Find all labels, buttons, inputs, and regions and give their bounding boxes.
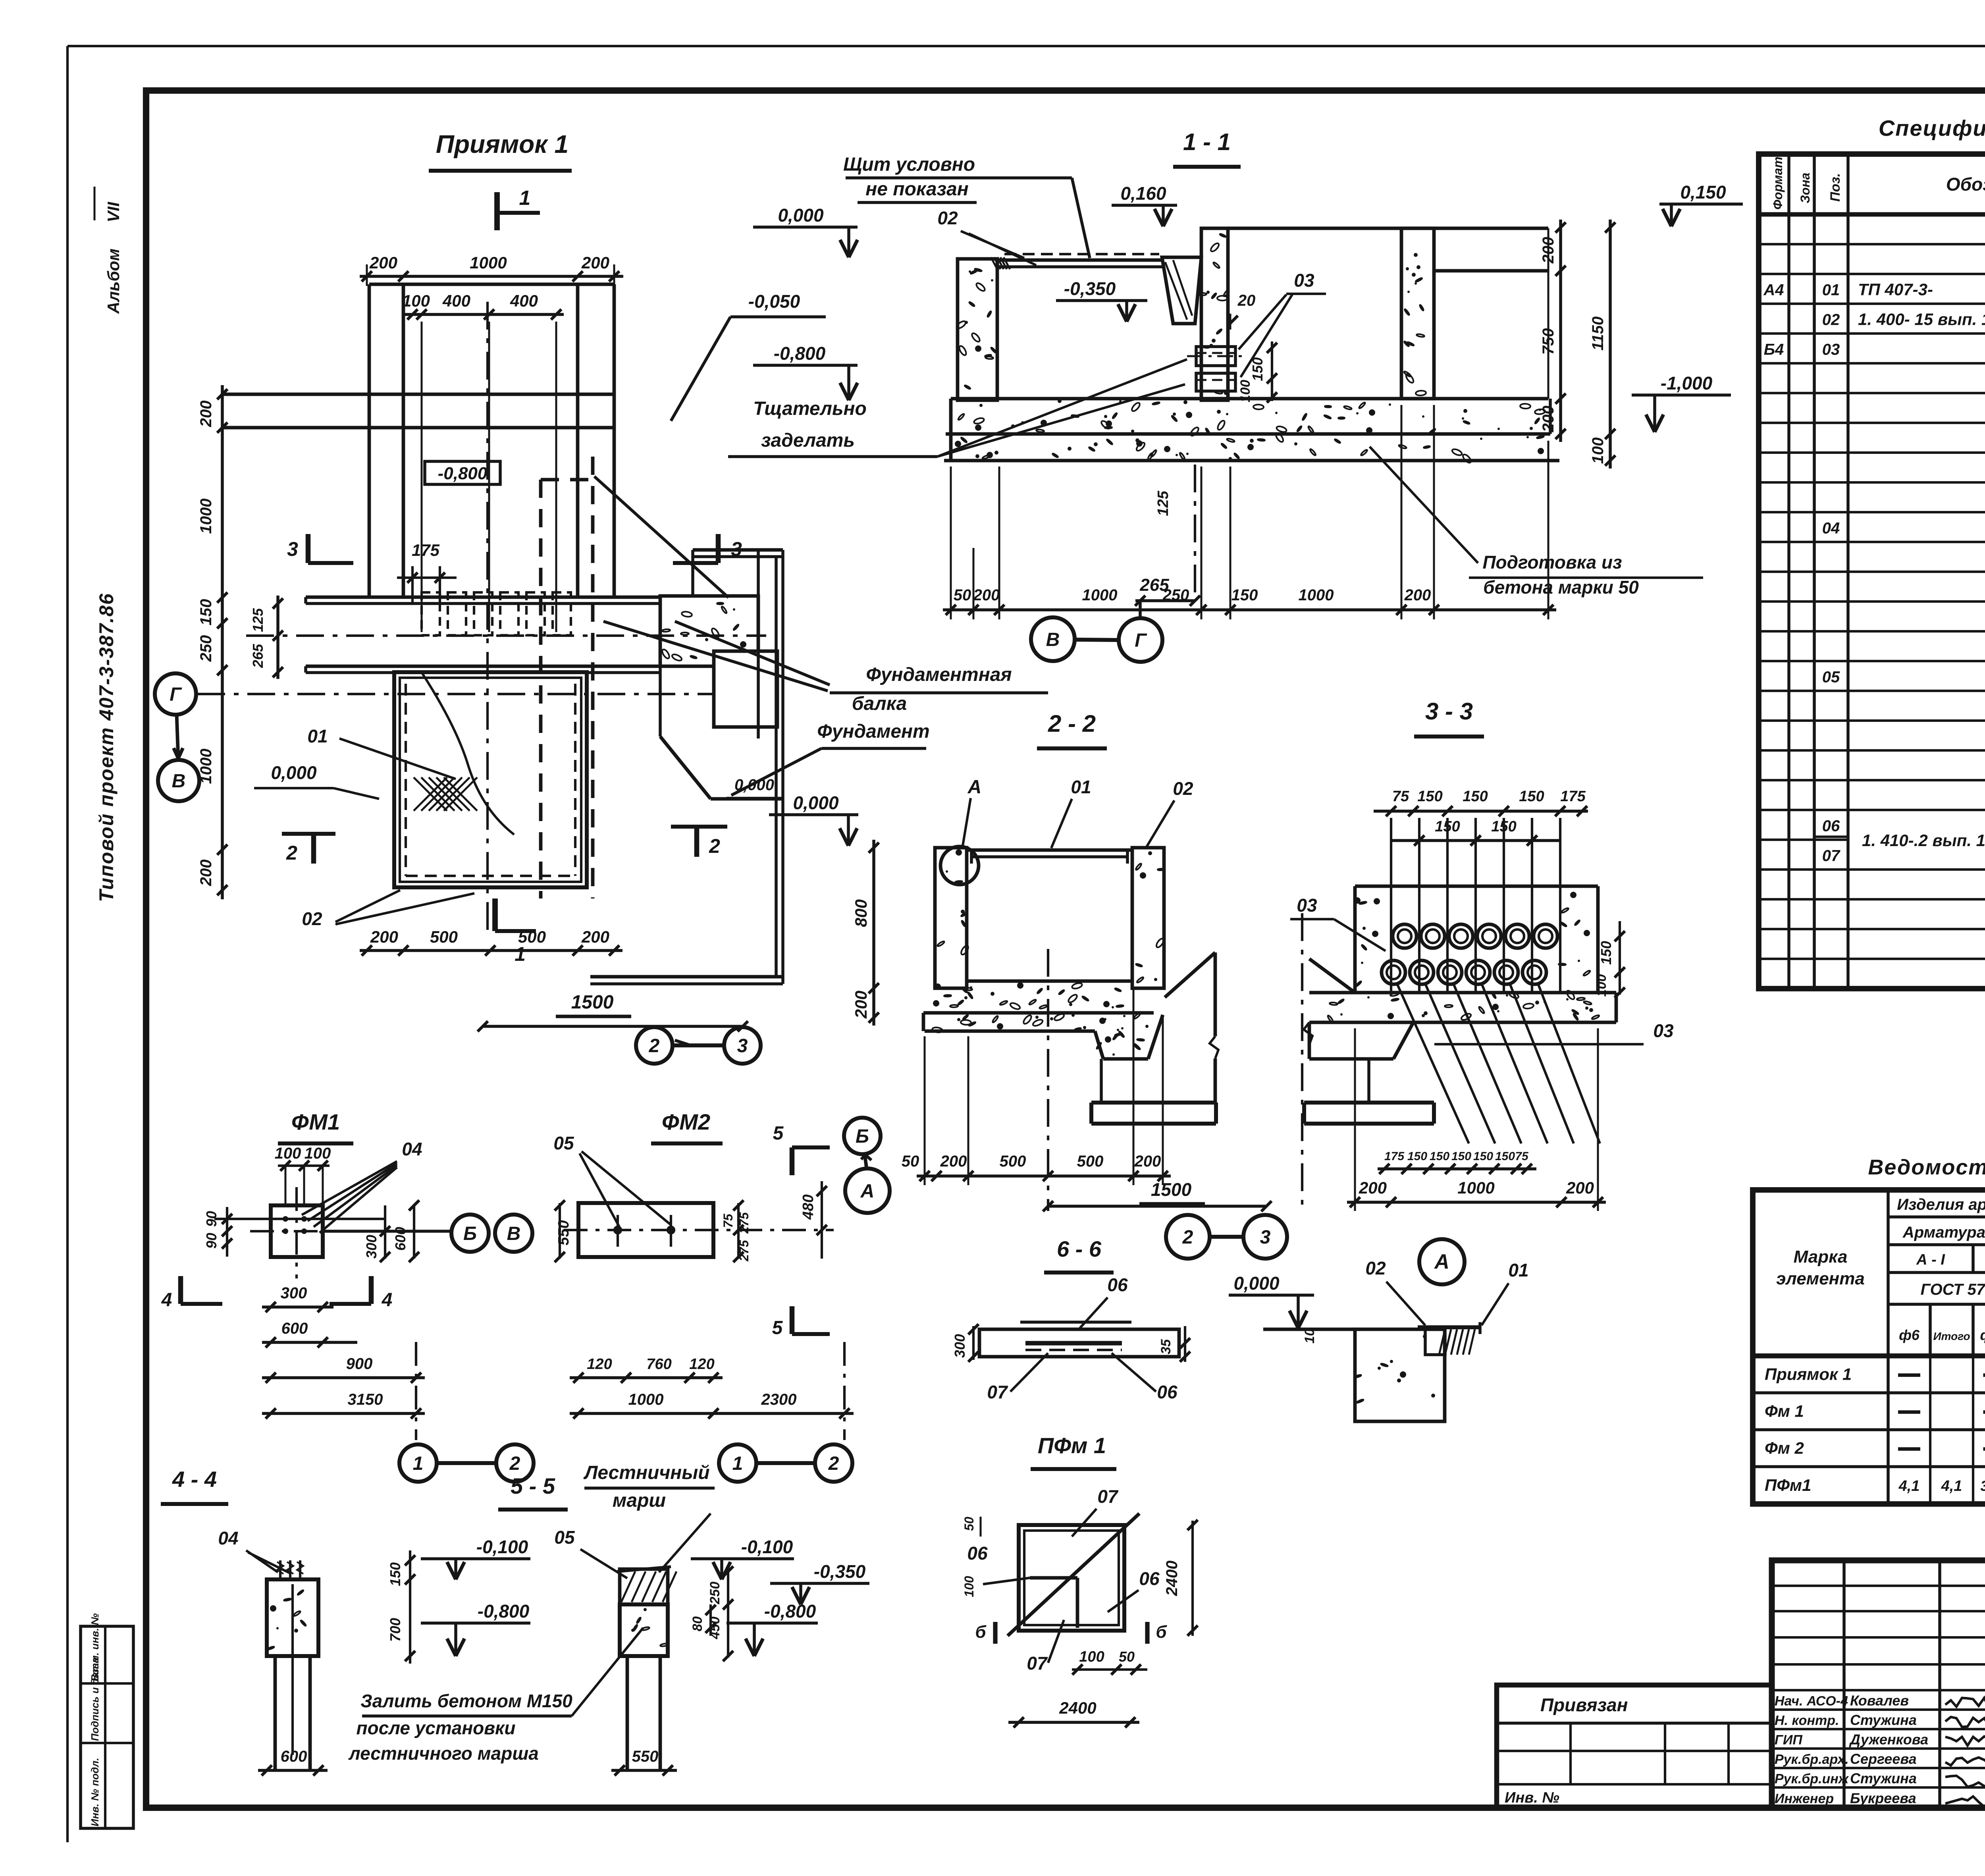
svg-text:4 - 4: 4 - 4 (172, 1467, 217, 1492)
svg-text:125: 125 (1155, 490, 1172, 516)
svg-text:80: 80 (690, 1616, 705, 1631)
svg-text:06: 06 (1822, 817, 1840, 835)
svg-text:150: 150 (1430, 1150, 1449, 1163)
svg-text:Обозначение: Обозначение (1946, 174, 1985, 195)
svg-text:100: 100 (275, 1145, 301, 1162)
svg-text:03: 03 (1294, 270, 1314, 291)
plan upper room walls (369, 283, 614, 286)
svg-text:75: 75 (1515, 1150, 1529, 1163)
svg-text:05: 05 (553, 1133, 574, 1153)
section 5-5 shaft below (626, 1656, 629, 1770)
svg-text:100: 100 (402, 291, 430, 310)
svg-text:1 - 1: 1 - 1 (1183, 129, 1231, 155)
svg-text:200: 200 (973, 586, 1000, 604)
svg-text:1: 1 (519, 187, 531, 210)
title block signature grid (1842, 1560, 1846, 1808)
plan level label -0,800 (boxed) (425, 461, 500, 484)
specification table grid (1759, 154, 1985, 989)
svg-text:ПФм1: ПФм1 (1765, 1476, 1811, 1494)
section 3-3 body (1355, 885, 1598, 888)
svg-text:1: 1 (515, 943, 526, 965)
svg-text:760: 760 (646, 1356, 671, 1373)
svg-text:150: 150 (1417, 788, 1442, 805)
svg-text:Фм 2: Фм 2 (1765, 1439, 1804, 1458)
svg-text:03: 03 (1653, 1020, 1674, 1041)
svg-text:150: 150 (387, 1562, 403, 1586)
svg-text:-0,050: -0,050 (748, 291, 800, 312)
outer thin margin border (67, 45, 1985, 47)
svg-text:0,000: 0,000 (778, 205, 824, 226)
section 2-2 detail circle А (940, 846, 979, 885)
svg-text:1000: 1000 (470, 253, 507, 272)
plan anchor bolt extension lines (421, 322, 423, 632)
section 4-4 dims 150 700 (409, 1550, 411, 1664)
svg-text:550: 550 (632, 1748, 659, 1765)
svg-text:Б4: Б4 (1764, 341, 1784, 359)
plan right foundation notch (714, 651, 777, 727)
svg-text:200: 200 (940, 1153, 967, 1170)
svg-text:200: 200 (197, 401, 215, 428)
svg-text:400: 400 (510, 291, 538, 310)
svg-text:75: 75 (721, 1213, 735, 1228)
svg-text:-0,800: -0,800 (774, 343, 826, 364)
section 2-2 ground break diagonal (1165, 952, 1215, 997)
svg-text:250: 250 (197, 635, 215, 662)
svg-text:500: 500 (430, 927, 458, 946)
svg-text:4,1: 4,1 (1941, 1478, 1962, 1494)
svg-text:90: 90 (203, 1211, 220, 1227)
svg-text:1500: 1500 (1151, 1179, 1192, 1200)
svg-text:5 - 5: 5 - 5 (511, 1473, 555, 1498)
svg-text:50: 50 (1119, 1648, 1135, 1665)
section 2-2 axis circles 2-3 (1166, 1215, 1210, 1259)
svg-text:175: 175 (1560, 788, 1586, 805)
svg-text:2400: 2400 (1163, 1561, 1181, 1596)
svg-text:Рук.бр.арх.: Рук.бр.арх. (1775, 1752, 1849, 1767)
plan section mark 2 (left) (311, 834, 316, 864)
svg-text:-0,800: -0,800 (764, 1601, 816, 1621)
svg-text:б: б (975, 1622, 987, 1642)
svg-text:2: 2 (509, 1453, 520, 1474)
ФМ1 section marks 4-4 (178, 1276, 183, 1304)
svg-text:1000: 1000 (628, 1391, 664, 1408)
plan left dimension chain (221, 385, 224, 899)
svg-text:Лестничный: Лестничный (583, 1462, 709, 1483)
svg-text:120: 120 (689, 1356, 714, 1373)
svg-text:1000: 1000 (1299, 586, 1334, 604)
svg-text:275: 275 (737, 1212, 751, 1234)
plan right foundation lower corner (659, 666, 662, 737)
svg-text:Зона: Зона (1798, 173, 1812, 203)
svg-text:100: 100 (1594, 974, 1609, 997)
svg-text:550: 550 (555, 1220, 572, 1245)
svg-text:02: 02 (1173, 778, 1193, 799)
svg-text:Дуженкова: Дуженкова (1849, 1731, 1928, 1748)
section 2-2 bottom dims (917, 1174, 1171, 1178)
svg-text:200: 200 (369, 253, 397, 272)
svg-text:-0,100: -0,100 (741, 1537, 793, 1557)
svg-text:50: 50 (902, 1153, 919, 1170)
svg-text:Залить бетоном М150: Залить бетоном М150 (360, 1691, 572, 1711)
section 1-1 right surface and ledge (1228, 227, 1548, 230)
svg-text:04: 04 (402, 1139, 422, 1159)
svg-text:4,1: 4,1 (1898, 1478, 1920, 1494)
section 3-3 bottom dim rows (1378, 1167, 1536, 1170)
title block frame (1772, 1560, 1985, 1808)
ФМ1 column plan (271, 1205, 323, 1257)
svg-text:150: 150 (1451, 1150, 1471, 1163)
svg-text:А: А (1434, 1250, 1449, 1273)
section 1-1 shield plate (997, 258, 1162, 262)
svg-text:Г: Г (1135, 630, 1147, 651)
svg-text:07: 07 (987, 1382, 1008, 1402)
svg-text:200: 200 (852, 991, 870, 1019)
svg-text:балка: балка (852, 693, 907, 714)
svg-text:150: 150 (1519, 788, 1544, 805)
svg-text:Подпись и дата: Подпись и дата (89, 1657, 101, 1741)
section 4-4 column (267, 1579, 318, 1656)
svg-text:Фундамент: Фундамент (817, 721, 929, 742)
section 3-3 vertical grid lines (1390, 818, 1392, 993)
svg-text:06: 06 (967, 1543, 988, 1564)
plan right foundation concrete band (660, 596, 758, 666)
svg-text:ГОСТ 5781-82: ГОСТ 5781-82 (1921, 1281, 1985, 1298)
ФМ2 axis circles 1 2 (719, 1444, 756, 1482)
plan section mark 3 (right) (716, 534, 721, 563)
section 3-3 top dim rows (1374, 810, 1588, 813)
section 2-2 foundation beam below (1091, 1101, 1216, 1105)
section 5-5 stair march element (hatched) (620, 1569, 668, 1604)
svg-text:35: 35 (1158, 1339, 1174, 1354)
section 1-1 axis circles В-Г (1031, 617, 1075, 661)
svg-text:05: 05 (1822, 669, 1840, 686)
section 1-1 right wall (1401, 228, 1434, 399)
svg-text:3150: 3150 (348, 1391, 383, 1408)
svg-text:Инженер: Инженер (1775, 1791, 1834, 1807)
svg-text:100: 100 (1589, 438, 1607, 464)
svg-text:В: В (172, 771, 186, 792)
plan fundament beam dashed squares (422, 592, 440, 635)
svg-text:200: 200 (1540, 237, 1557, 264)
svg-text:20: 20 (1237, 292, 1256, 309)
svg-text:750: 750 (1540, 328, 1557, 355)
svg-text:б: б (1156, 1622, 1167, 1642)
svg-text:3: 3 (737, 1035, 748, 1057)
svg-text:300: 300 (952, 1334, 968, 1358)
svg-text:50: 50 (954, 586, 971, 604)
svg-text:ф6: ф6 (1899, 1327, 1920, 1343)
section 1-1 left wall (958, 259, 997, 400)
svg-text:-0,800: -0,800 (438, 464, 488, 483)
title block left box Привязан (1497, 1685, 1772, 1808)
svg-text:-0,100: -0,100 (476, 1537, 528, 1557)
svg-text:2 - 2: 2 - 2 (1048, 710, 1096, 737)
section 3-3 right dims 150-100 (1619, 921, 1621, 995)
svg-text:ф10: ф10 (1980, 1327, 1985, 1343)
svg-text:1000: 1000 (1457, 1178, 1494, 1197)
svg-text:10: 10 (1302, 1328, 1317, 1344)
svg-text:2: 2 (828, 1453, 839, 1474)
svg-text:ГИП: ГИП (1775, 1733, 1803, 1748)
svg-text:Фм 1: Фм 1 (1765, 1402, 1804, 1421)
svg-text:лестничного марша: лестничного марша (348, 1743, 539, 1764)
axis circles Б-А between ФМ2 and section 2-2 (844, 1118, 881, 1154)
svg-text:Марка: Марка (1794, 1247, 1848, 1267)
svg-text:05: 05 (554, 1527, 575, 1548)
svg-text:01: 01 (1071, 777, 1091, 797)
svg-text:480: 480 (800, 1194, 817, 1220)
svg-text:600: 600 (281, 1320, 308, 1337)
svg-text:150: 150 (1463, 788, 1488, 805)
plan inner dimension chain 125-265 (276, 596, 279, 679)
svg-text:04: 04 (218, 1528, 238, 1548)
ФМ1 bottom dims (262, 1305, 333, 1309)
section 1-1 right dim chain 200-750-200 (1559, 220, 1562, 442)
svg-text:265: 265 (1139, 575, 1169, 595)
svg-text:03: 03 (1822, 341, 1840, 359)
svg-text:2: 2 (649, 1035, 660, 1057)
svg-text:02: 02 (937, 208, 958, 228)
plan trench (fundament beam channel) (306, 596, 660, 599)
svg-text:-0,350: -0,350 (1064, 278, 1116, 299)
svg-text:03: 03 (1297, 895, 1317, 916)
svg-text:3: 3 (287, 538, 298, 560)
svg-text:06: 06 (1157, 1382, 1178, 1402)
svg-text:А - I: А - I (1916, 1251, 1945, 1268)
svg-text:0,000: 0,000 (1233, 1273, 1280, 1294)
svg-text:4: 4 (382, 1290, 393, 1311)
svg-text:Б: Б (856, 1126, 869, 1147)
svg-text:заделать: заделать (761, 430, 855, 451)
svg-text:VII: VII (104, 201, 123, 222)
svg-text:300: 300 (363, 1235, 380, 1259)
svg-text:200: 200 (1134, 1153, 1161, 1170)
plan dashed hidden foundation rectangle (539, 480, 543, 898)
svg-text:150: 150 (1231, 586, 1258, 604)
svg-text:0,000: 0,000 (271, 762, 317, 783)
svg-text:500: 500 (518, 927, 546, 946)
plan top dimension 200-1000-200 (360, 275, 623, 278)
section 2-2 walls (935, 848, 967, 988)
svg-text:500: 500 (1077, 1153, 1104, 1170)
svg-text:Сергеева: Сергеева (1850, 1751, 1917, 1767)
svg-text:1. 410-.2 вып. 1: 1. 410-.2 вып. 1 (1862, 831, 1985, 850)
steel table grid (1753, 1190, 1985, 1504)
svg-text:1: 1 (732, 1453, 743, 1474)
svg-text:150: 150 (1598, 941, 1614, 965)
svg-text:Привязан: Привязан (1540, 1695, 1628, 1715)
svg-text:Стужина: Стужина (1850, 1712, 1917, 1728)
svg-text:200: 200 (197, 860, 215, 887)
plan leader lines to фундаментная балка (594, 476, 728, 598)
plan section mark 3 (left) (306, 534, 311, 563)
svg-text:0,150: 0,150 (1680, 182, 1726, 202)
svg-text:2400: 2400 (1059, 1699, 1096, 1717)
svg-text:100: 100 (1079, 1648, 1104, 1665)
ПФм1 diagonal bar 07 (1008, 1514, 1139, 1636)
section 3-3 footing below-left (1393, 1022, 1413, 1059)
ПФм1 slab plan (1019, 1525, 1124, 1631)
svg-text:ФМ1: ФМ1 (291, 1109, 340, 1134)
plan right foundation bottom edge (590, 975, 783, 979)
svg-text:Приямок 1: Приямок 1 (436, 130, 569, 158)
ПФм1 dim 2400 bottom (1008, 1721, 1139, 1724)
plan pit hatch patch (414, 777, 447, 811)
svg-text:1000: 1000 (197, 499, 215, 534)
svg-text:150: 150 (1473, 1150, 1493, 1163)
svg-text:37,7: 37,7 (1980, 1478, 1985, 1494)
svg-text:ТП 407-3-: ТП 407-3- (1858, 280, 1933, 299)
svg-text:Букреева: Букреева (1850, 1790, 1916, 1807)
svg-text:50: 50 (962, 1517, 976, 1531)
svg-text:Приямок 1: Приямок 1 (1765, 1365, 1852, 1384)
section 1-1 right dim chain 1150-100 (1609, 220, 1612, 469)
ФМ1 right dims 300 600 (384, 1205, 386, 1259)
svg-text:02: 02 (302, 908, 322, 929)
svg-text:Стужина: Стужина (1850, 1770, 1917, 1787)
svg-text:01: 01 (1508, 1260, 1528, 1280)
section 1-1 shield end upstand (1162, 257, 1201, 324)
plan section mark 2 (right) (694, 827, 700, 857)
svg-text:07: 07 (1822, 847, 1840, 865)
svg-text:500: 500 (1000, 1153, 1026, 1170)
svg-text:элемента: элемента (1776, 1269, 1865, 1288)
svg-text:200: 200 (1359, 1178, 1387, 1197)
svg-text:Типовой проект 407-3-387.86: Типовой проект 407-3-387.86 (95, 593, 118, 902)
section 3-3 pipe circles row 2 (1382, 960, 1405, 984)
svg-text:200: 200 (1404, 586, 1431, 604)
title block signatures (squiggles) (1945, 1698, 1985, 1710)
svg-text:после установки: после установки (357, 1718, 516, 1738)
svg-text:В: В (507, 1223, 521, 1244)
section 2-2 cover plate 01 (967, 848, 1132, 852)
ФМ2 right dims 75 275 275 (737, 1203, 740, 1259)
svg-text:04: 04 (1822, 520, 1840, 537)
plan dimension 100-400-400 (405, 313, 564, 316)
svg-text:01: 01 (307, 726, 328, 746)
section 3-3 diagonal pipe lines (1397, 985, 1469, 1143)
detail А floor line (1263, 1328, 1355, 1331)
section 6-6 plate (979, 1329, 1179, 1357)
svg-text:150: 150 (197, 599, 215, 626)
ФМ1 axis circles 1 2 (399, 1444, 437, 1482)
detail А circle label (1419, 1239, 1465, 1284)
section 4-4 bolts above column (279, 1560, 281, 1579)
svg-text:450: 450 (707, 1617, 723, 1640)
svg-text:06: 06 (1139, 1568, 1160, 1589)
section 2-2 floor slab (968, 979, 1133, 983)
section 4-4 shaft below (274, 1656, 277, 1770)
plan section mark 1 (bottom) (492, 898, 498, 931)
svg-text:Поз.: Поз. (1828, 173, 1843, 202)
plan section mark 1 (top) (494, 192, 500, 230)
svg-text:Щит условно: Щит условно (843, 154, 975, 175)
section 1-1 dims 150/100 at pipes (1271, 341, 1273, 401)
svg-text:150: 150 (1407, 1150, 1427, 1163)
section 5-5 bottom dim 550 (611, 1769, 677, 1772)
plan right foundation top edge (693, 548, 783, 552)
svg-text:не показан: не показан (865, 179, 968, 200)
ФМ2 section marks 5-5 (790, 1147, 795, 1175)
section 2-2 axis dash-dot (1047, 949, 1049, 1211)
svg-text:07: 07 (1097, 1486, 1119, 1507)
svg-text:Г: Г (170, 684, 182, 705)
section 1-1 middle wall (1201, 228, 1228, 400)
svg-text:5: 5 (773, 1123, 784, 1144)
svg-text:250: 250 (707, 1582, 723, 1605)
detail А concrete block (1355, 1329, 1445, 1421)
svg-text:07: 07 (1027, 1653, 1048, 1674)
section 5-5 column (620, 1604, 668, 1656)
section 1-1 floor slab (951, 397, 1548, 401)
section 1-1 bottom dim chain (943, 608, 1556, 611)
svg-text:175: 175 (1384, 1150, 1405, 1163)
section 4-4 bottom dim 600 (258, 1769, 328, 1772)
section 3-3 axis dash-dot (1301, 913, 1303, 1211)
ФМ2 axis circle А (845, 1168, 890, 1213)
svg-text:ПФм 1: ПФм 1 (1038, 1433, 1106, 1458)
svg-text:175: 175 (412, 541, 440, 559)
svg-text:Н. контр.: Н. контр. (1775, 1713, 1839, 1728)
svg-text:Б: Б (463, 1223, 477, 1244)
svg-text:1150: 1150 (1589, 316, 1607, 351)
margin stamp table (Взам.инв.№ / Подпись и дата / Инв.№ подл.) (81, 1626, 133, 1828)
svg-text:-1,000: -1,000 (1661, 373, 1713, 393)
ПФм1 internal bars 06 (1030, 1576, 1077, 1580)
svg-text:2: 2 (709, 835, 720, 857)
svg-text:300: 300 (281, 1284, 307, 1302)
svg-text:0,000: 0,000 (793, 792, 839, 813)
plan pit walls (394, 672, 587, 887)
svg-text:400: 400 (442, 291, 470, 310)
svg-text:120: 120 (587, 1356, 612, 1373)
svg-text:бетона марки 50: бетона марки 50 (1483, 577, 1639, 598)
svg-text:150: 150 (1495, 1150, 1515, 1163)
svg-text:900: 900 (346, 1355, 373, 1373)
svg-text:90: 90 (203, 1233, 220, 1249)
section 1-1 axis dash-dot below wall (1194, 465, 1196, 598)
ФМ2 footing plan (578, 1203, 713, 1257)
svg-text:265: 265 (250, 644, 266, 668)
svg-text:2300: 2300 (761, 1391, 797, 1408)
svg-text:1000: 1000 (1082, 586, 1118, 604)
svg-text:-0,800: -0,800 (478, 1601, 530, 1621)
svg-text:150: 150 (1249, 357, 1266, 381)
section 2-2 left dims 800-200 (872, 840, 875, 1026)
svg-text:275: 275 (737, 1240, 751, 1262)
svg-text:200: 200 (370, 927, 398, 946)
svg-text:Ковалев: Ковалев (1850, 1693, 1909, 1709)
ФМ2 bottom dims (570, 1376, 723, 1379)
plan axis circles Г-В (left) (155, 673, 196, 715)
svg-text:Тщательно: Тщательно (753, 398, 867, 419)
svg-text:200: 200 (1566, 1178, 1594, 1197)
svg-text:3: 3 (1260, 1227, 1271, 1248)
svg-text:Альбом: Альбом (104, 249, 123, 314)
section 3-3 pipe circles row 1 (1393, 924, 1416, 948)
svg-text:200: 200 (581, 927, 609, 946)
svg-text:1: 1 (413, 1453, 424, 1474)
plan vertical centerline axis (486, 302, 489, 933)
plan right foundation grid lines (757, 550, 760, 738)
svg-text:Инв. №: Инв. № (1505, 1789, 1559, 1806)
svg-text:1500: 1500 (571, 992, 614, 1013)
plan axis circles 2-3 (636, 1027, 673, 1064)
svg-text:800: 800 (852, 899, 870, 927)
svg-text:2: 2 (286, 842, 297, 864)
svg-text:700: 700 (387, 1618, 403, 1642)
svg-text:600: 600 (281, 1748, 307, 1765)
